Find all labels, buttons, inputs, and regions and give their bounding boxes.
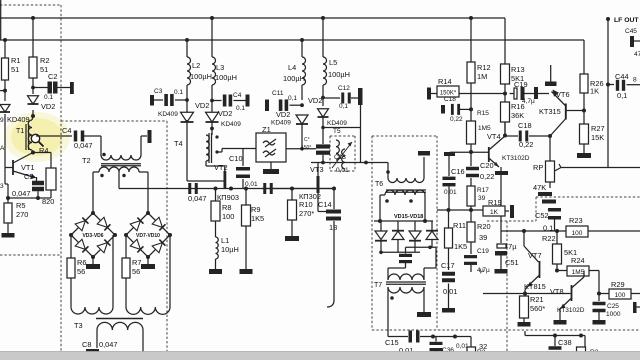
node bus2 x187 <box>185 38 189 42</box>
svg-text:100µH: 100µH <box>190 72 212 81</box>
svg-text:RP: RP <box>533 163 543 172</box>
capacitor plate right of T2 <box>148 130 152 143</box>
resistor R12 <box>467 62 475 83</box>
wire R1 column <box>4 40 6 58</box>
node vt7e <box>523 292 527 296</box>
wire bus1 drop to R13 <box>504 18 506 64</box>
wire base row y293 <box>483 293 571 295</box>
svg-text:C45: C45 <box>625 28 637 35</box>
wire bus2 drop to R26 <box>583 40 585 74</box>
svg-text:VT3: VT3 <box>310 165 324 174</box>
svg-text:KD409: KD409 <box>158 111 178 118</box>
wire vd3 to plate column <box>323 127 361 129</box>
node x505 y93 <box>503 92 507 96</box>
resistor R10 <box>291 189 293 201</box>
player bar <box>0 352 640 360</box>
svg-text:R16: R16 <box>511 102 525 111</box>
svg-text:100µH: 100µH <box>328 70 350 79</box>
capacitor C52 stack <box>549 182 551 188</box>
svg-text:150°: 150° <box>301 145 311 151</box>
node y293 right <box>597 292 601 296</box>
node r22 bottom <box>555 269 559 273</box>
svg-text:8: 8 <box>633 77 637 84</box>
wire T7 left down <box>387 287 389 337</box>
node VT6 collector <box>582 109 586 113</box>
svg-text:R10: R10 <box>299 200 313 209</box>
svg-text:C16: C16 <box>451 167 465 176</box>
svg-text:KD409: KD409 <box>327 120 347 127</box>
wire bottom y336 <box>388 336 408 338</box>
node d-row2 <box>423 219 427 223</box>
svg-text:560*: 560* <box>530 304 545 313</box>
node x471 c18b <box>469 107 473 111</box>
transformer T6 secondary <box>385 190 425 195</box>
svg-text:1M5: 1M5 <box>478 125 491 132</box>
node T6 dot <box>386 170 390 174</box>
wire C4 to T2 <box>84 135 101 137</box>
svg-text:100: 100 <box>222 212 234 221</box>
main bus y189 <box>119 188 334 190</box>
svg-text:1M: 1M <box>477 72 487 81</box>
wire VT3 source <box>317 193 319 212</box>
wire top bus y40 <box>0 39 584 41</box>
capacitor C9 on bus <box>188 183 191 194</box>
svg-text:R7: R7 <box>132 258 141 267</box>
node bus2 x5 <box>3 38 7 42</box>
ground under C25 <box>593 320 606 325</box>
VT7 emitter <box>527 275 540 287</box>
node bus1 x33 <box>31 16 35 20</box>
wire VT4 collector <box>489 136 505 150</box>
wire VT6 collector diagonal <box>551 119 566 136</box>
node y162 b <box>364 161 368 165</box>
svg-text:0,1: 0,1 <box>617 91 627 100</box>
dashed box transformer module <box>61 120 167 122</box>
node x550 y136 <box>548 134 552 138</box>
svg-text:VD2: VD2 <box>41 102 55 111</box>
wire L5 column <box>322 18 324 57</box>
svg-text:R11: R11 <box>453 221 466 230</box>
ground under Z1 <box>270 162 272 169</box>
svg-text:C3: C3 <box>154 88 163 95</box>
svg-text:C4: C4 <box>233 92 242 99</box>
svg-text:VD2: VD2 <box>218 109 232 118</box>
VT8 collector <box>572 277 585 288</box>
svg-text:270: 270 <box>16 210 28 219</box>
svg-text:T2: T2 <box>82 156 91 165</box>
svg-text:0,22: 0,22 <box>450 116 463 123</box>
wire VT7 collector <box>523 231 525 246</box>
node T2 sec dot2 <box>122 174 125 177</box>
resistor R8 <box>215 189 217 202</box>
svg-text:R15: R15 <box>477 110 489 117</box>
node c14 top <box>332 210 336 214</box>
svg-text:C20: C20 <box>480 161 494 170</box>
wire c36 right <box>465 336 471 338</box>
svg-text:L5: L5 <box>329 58 337 67</box>
node y210 a <box>447 208 451 212</box>
svg-text:0,01: 0,01 <box>444 189 457 196</box>
ground under bridge VD3-VD6 <box>92 257 94 264</box>
transformer T6 core <box>386 189 426 191</box>
svg-text:R20: R20 <box>477 222 491 231</box>
svg-text:C8: C8 <box>82 340 91 349</box>
node x471 y152 <box>469 150 473 154</box>
svg-text:51: 51 <box>40 65 48 74</box>
svg-text:R5: R5 <box>16 201 25 210</box>
wire T7 right to ground <box>423 287 425 312</box>
node c3 <box>185 98 189 102</box>
resistor R7 <box>125 235 127 258</box>
node y231 a <box>522 229 526 233</box>
capacitor plate T6 right <box>423 157 425 178</box>
node bus x246 <box>244 187 248 191</box>
wire T1 bottom <box>32 150 33 153</box>
node y210 b <box>469 208 473 212</box>
resistor R16 <box>501 102 510 122</box>
node bus1 x212 <box>210 16 214 20</box>
bus segment stage3 <box>262 188 334 190</box>
diode VD2b <box>186 100 188 112</box>
node e2 <box>36 196 40 200</box>
svg-text:µ: µ <box>480 267 484 274</box>
svg-text:R1: R1 <box>11 56 20 65</box>
svg-text:VD2: VD2 <box>276 110 290 119</box>
left border wire <box>0 0 2 40</box>
wire T2 center tap to bus <box>118 172 120 189</box>
resistor R9 <box>245 189 247 206</box>
svg-text:39: 39 <box>478 195 486 202</box>
node c11 <box>300 103 304 107</box>
diode row top bus <box>374 220 433 222</box>
resistor R35 <box>577 347 586 360</box>
transformer T3 left winding <box>70 278 72 307</box>
transformer T3 right winding <box>125 278 127 307</box>
dashed box T5 <box>330 135 355 137</box>
wire y162 to T6 <box>311 162 388 164</box>
wire d4 to T7 <box>435 247 437 268</box>
inductor L4 <box>302 57 306 85</box>
node e1 <box>6 196 10 200</box>
svg-text:VD7-VD10: VD7-VD10 <box>136 233 160 239</box>
svg-text:VT8: VT8 <box>550 287 564 296</box>
svg-text:R4: R4 <box>39 146 48 155</box>
wire VT4 base <box>450 151 489 153</box>
svg-text:R6: R6 <box>77 258 86 267</box>
LF OUT wire <box>607 19 609 168</box>
resistor 820 <box>33 152 51 154</box>
svg-text:VT7: VT7 <box>528 251 542 260</box>
svg-text:R22: R22 <box>542 234 556 243</box>
diode bridge VD7-VD10 <box>126 213 170 257</box>
resistor R15 <box>467 121 476 144</box>
ground under R27 <box>577 153 591 158</box>
wire T6 secondary to diode row <box>380 194 385 196</box>
transformer T3 core <box>96 318 143 320</box>
svg-text:KD409: KD409 <box>221 121 241 128</box>
resistor R21 <box>524 294 526 297</box>
wire L2 column <box>186 40 188 57</box>
wire to RP <box>549 136 551 161</box>
svg-text:10µH: 10µH <box>221 245 239 254</box>
svg-text:T1: T1 <box>16 128 24 135</box>
svg-text:KT3102D: KT3102D <box>502 155 530 162</box>
diode VD16 <box>397 221 399 231</box>
node z-right <box>300 147 304 151</box>
VT8 emitter <box>560 298 572 309</box>
svg-text:18: 18 <box>329 223 337 232</box>
wire R2 column <box>32 18 34 57</box>
svg-text:1000: 1000 <box>606 311 621 318</box>
ground under VT8 <box>554 320 567 325</box>
diode VD15 <box>380 221 382 231</box>
node R4 <box>31 151 35 155</box>
transformer T2 secondary <box>99 167 139 172</box>
node y231 b <box>555 229 559 233</box>
svg-text:0,047: 0,047 <box>99 340 118 349</box>
svg-text:R2: R2 <box>40 56 49 65</box>
node T6s dot2 <box>409 199 413 203</box>
node t4 top <box>210 127 214 131</box>
svg-text:R9: R9 <box>251 205 260 214</box>
svg-text:VT4: VT4 <box>487 132 501 141</box>
svg-text:56: 56 <box>132 267 140 276</box>
node bus1 x323 <box>321 16 325 20</box>
node T4 dot2 <box>215 150 218 153</box>
svg-text:0,1: 0,1 <box>339 103 348 110</box>
svg-text:0.1: 0.1 <box>44 94 53 101</box>
svg-text:T7: T7 <box>374 282 382 289</box>
svg-text:R29: R29 <box>611 280 625 289</box>
ground under L1 <box>209 269 222 274</box>
wire T2 lower left to bridge1 <box>93 171 99 173</box>
resistor R6 <box>70 235 72 258</box>
svg-text:1M5: 1M5 <box>572 269 585 276</box>
dashed box left oscillator module <box>0 4 61 6</box>
wire VT4 collector to C18 <box>505 135 518 137</box>
capacitor C25 <box>598 294 600 302</box>
svg-text:T5: T5 <box>333 128 341 135</box>
svg-text:VD15-VD18: VD15-VD18 <box>394 214 423 220</box>
capacitor plate right of R19 <box>505 210 509 212</box>
inductor L3 <box>212 57 216 85</box>
svg-text:R14: R14 <box>438 77 452 86</box>
wire T4 to VT2 <box>205 161 207 166</box>
resistor R27 <box>580 124 589 144</box>
svg-text:47: 47 <box>634 51 640 58</box>
capacitor plate right of C12 <box>358 88 363 105</box>
svg-text:1K5: 1K5 <box>251 214 264 223</box>
svg-text:C11: C11 <box>272 90 284 97</box>
resistor R5 <box>7 198 9 203</box>
node T7 dot <box>390 296 394 300</box>
node c4b <box>210 99 214 103</box>
wire Z1 right to C13 <box>286 148 316 150</box>
node c15 out <box>431 335 435 339</box>
svg-text:R23: R23 <box>569 216 583 225</box>
svg-text:R27: R27 <box>591 124 605 133</box>
capacitor C13 <box>316 144 330 148</box>
wire T4 right to C10 wire <box>216 151 222 153</box>
ground under bridge VD7-VD10 <box>147 257 149 264</box>
resistor R33 <box>467 347 476 358</box>
wire emitter node row <box>8 197 51 199</box>
svg-text:C44: C44 <box>615 72 629 81</box>
svg-text:0,01: 0,01 <box>245 181 258 188</box>
wire T1 secondary to C4 <box>36 135 72 137</box>
ground under R5 <box>7 223 9 233</box>
node R1 bottom <box>3 89 7 93</box>
svg-text:C38: C38 <box>558 338 572 347</box>
node bus x292 <box>290 187 294 191</box>
capacitor C36 <box>435 337 437 342</box>
diode row lower buses <box>381 251 420 253</box>
wire y210 <box>437 209 483 211</box>
svg-text:270*: 270* <box>299 209 314 218</box>
node T2 sec dot1 <box>100 174 103 177</box>
transformer T7 primary <box>388 274 424 280</box>
svg-text:100µH: 100µH <box>283 74 305 83</box>
node bb1 <box>553 334 557 338</box>
node bus x334 <box>332 187 336 191</box>
magnifier icon <box>31 134 39 142</box>
svg-text:C5: C5 <box>24 172 33 181</box>
ground under R21 <box>518 322 531 327</box>
svg-text:C2: C2 <box>48 72 57 81</box>
svg-text:R24: R24 <box>571 256 585 265</box>
node vd3 out <box>321 126 325 130</box>
svg-text:0.1: 0.1 <box>174 89 183 96</box>
resistor R2 <box>29 57 37 78</box>
svg-text:VT2: VT2 <box>214 163 228 172</box>
svg-text:VD2: VD2 <box>195 101 209 110</box>
svg-text:C18: C18 <box>444 96 456 103</box>
node d-out <box>428 246 432 250</box>
node bb2 <box>579 334 583 338</box>
svg-text:C18: C18 <box>518 121 532 130</box>
node d-low <box>379 251 383 255</box>
svg-text:R17: R17 <box>477 187 489 194</box>
svg-text:15K: 15K <box>591 133 604 142</box>
svg-text:KD409: KD409 <box>7 115 30 124</box>
svg-text:T6: T6 <box>375 181 383 188</box>
diode VD2c <box>211 101 213 114</box>
wire L4 column <box>301 40 303 57</box>
svg-text:1K: 1K <box>490 209 499 216</box>
svg-text:0,22: 0,22 <box>480 172 494 181</box>
wire VT4 emitter <box>489 158 499 167</box>
svg-text:C14: C14 <box>318 200 332 209</box>
svg-text:KT3102D: KT3102D <box>557 307 585 314</box>
ground T7 <box>417 312 431 317</box>
svg-text:0,047: 0,047 <box>74 141 93 150</box>
wire VT1 base <box>5 167 13 169</box>
svg-text:39: 39 <box>479 233 487 242</box>
svg-text:R12: R12 <box>477 63 491 72</box>
svg-text:C°: C° <box>304 137 310 143</box>
svg-text:C12: C12 <box>338 85 350 92</box>
node c36 node <box>453 335 457 339</box>
svg-text:C4: C4 <box>62 126 71 135</box>
transformer T3 secondary <box>97 322 143 330</box>
svg-text:VD2: VD2 <box>308 96 322 105</box>
ground under R9 <box>240 269 253 274</box>
node c13 out <box>321 161 325 165</box>
svg-text:L1: L1 <box>221 236 229 245</box>
wire L3 column <box>211 18 213 57</box>
svg-text:9: 9 <box>0 117 4 124</box>
diode bridge VD3-VD6 <box>71 213 115 257</box>
svg-text:0,22: 0,22 <box>519 140 533 149</box>
capacitor plate c19 second <box>534 87 538 99</box>
svg-text:0,01: 0,01 <box>443 287 457 296</box>
svg-text:VD3-VD6: VD3-VD6 <box>82 233 103 239</box>
svg-text:32: 32 <box>479 342 487 351</box>
wire VD2 to T4 <box>211 122 213 133</box>
inductor L5 <box>323 57 327 85</box>
dashed box output module boundary <box>536 196 640 198</box>
svg-text:1K: 1K <box>590 87 599 96</box>
svg-text:KD409: KD409 <box>271 120 291 127</box>
svg-text:C10: C10 <box>229 154 243 163</box>
node c44 <box>606 83 610 87</box>
svg-text:T3: T3 <box>74 321 83 330</box>
resistor R26 <box>580 74 588 93</box>
svg-text:R13: R13 <box>511 65 525 74</box>
svg-text:56: 56 <box>77 267 85 276</box>
wire RP wiper out <box>561 167 608 169</box>
capacitor C?stage3 <box>263 183 266 194</box>
svg-text:36K: 36K <box>511 111 524 120</box>
node T2 top <box>102 153 106 157</box>
svg-text:C52: C52 <box>535 211 549 220</box>
svg-text:KT315: KT315 <box>539 107 561 116</box>
transformer T2 core <box>101 163 141 165</box>
diode VD2d <box>296 115 308 124</box>
node VD2 T1 <box>31 114 35 118</box>
svg-text:0,047: 0,047 <box>188 194 207 203</box>
svg-text:R8: R8 <box>222 203 231 212</box>
capacitor after diode row <box>399 254 412 257</box>
node bus x215 <box>214 187 218 191</box>
node bus2 x302 <box>300 38 304 42</box>
capacitor plate before R14 <box>427 88 431 100</box>
wire T2 upper right <box>140 136 142 155</box>
svg-text:0.1: 0.1 <box>236 105 245 112</box>
svg-text:LF OUT: LF OUT <box>614 17 639 24</box>
transformer T7 secondary <box>388 287 424 293</box>
svg-text:L4: L4 <box>288 63 296 72</box>
highlight glow around T1 <box>11 118 63 156</box>
svg-text:L3: L3 <box>216 63 224 72</box>
resistor R17 <box>467 186 475 206</box>
node d-row1 <box>378 219 382 223</box>
wire VT6 collector <box>566 110 584 112</box>
svg-text:C19: C19 <box>477 248 489 255</box>
wire VT3 drain <box>317 163 319 177</box>
node T4 dot1 <box>215 135 218 138</box>
ground under C51 <box>495 269 508 274</box>
svg-text:C17: C17 <box>441 261 455 270</box>
diode VD2 <box>28 96 39 104</box>
ground under C17 <box>442 308 455 313</box>
svg-text:1K5: 1K5 <box>454 242 467 251</box>
wire T2 lower right to bridge2 <box>139 171 148 173</box>
svg-text:C25: C25 <box>607 303 619 310</box>
dashed box T6 T7 module <box>372 135 437 137</box>
svg-text:0,1: 0,1 <box>288 95 297 102</box>
svg-text:0,047: 0,047 <box>12 189 31 198</box>
